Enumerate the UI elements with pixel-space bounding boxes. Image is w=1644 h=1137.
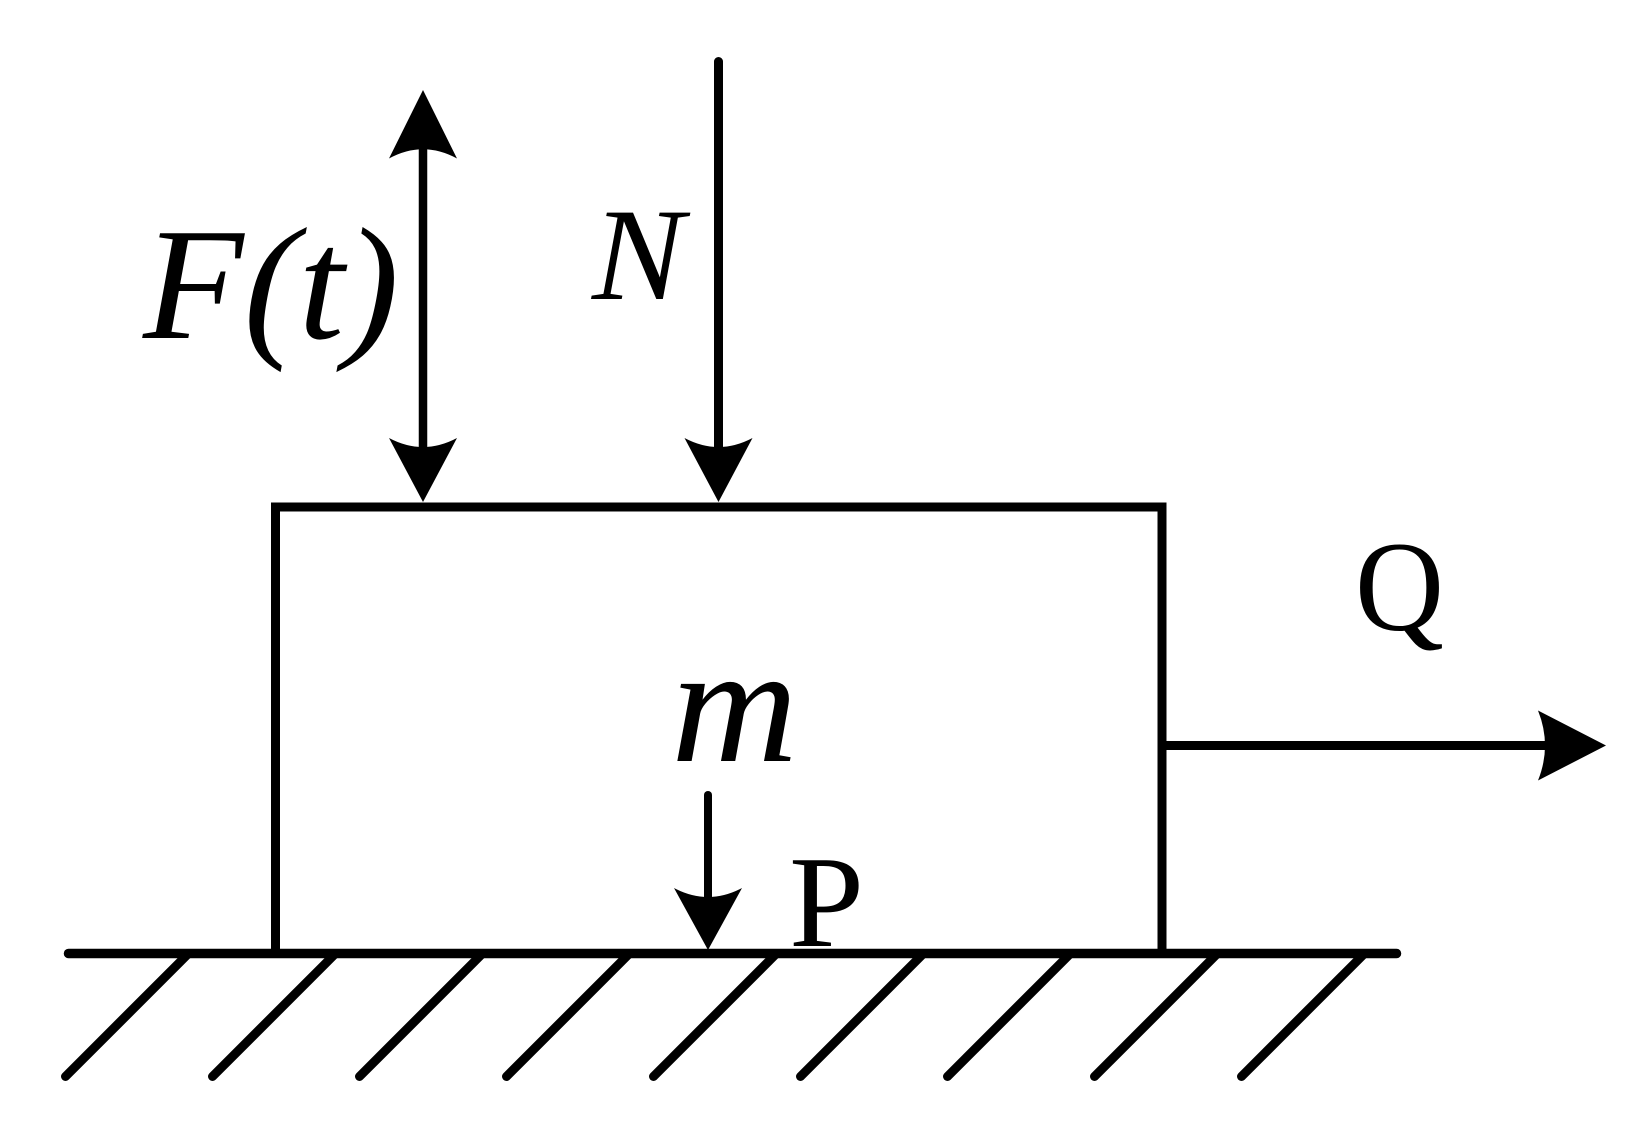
- ground hatch 8: [1095, 955, 1217, 1077]
- ground hatch 9: [1242, 955, 1364, 1077]
- ground hatch 5: [654, 955, 776, 1077]
- F(t) up arrowhead: [389, 90, 457, 159]
- friction arrow Q shaft: [1162, 741, 1558, 750]
- ground hatch 3: [360, 955, 482, 1077]
- force double arrow F(t) shaft: [419, 140, 428, 455]
- svg-text:F(t): F(t): [142, 195, 399, 373]
- weight arrow P shaft: [704, 795, 712, 900]
- force arrow N shaft: [714, 62, 723, 456]
- Q right arrowhead: [1538, 711, 1606, 781]
- svg-text:P: P: [789, 830, 864, 975]
- ground line: [69, 949, 1397, 959]
- svg-text:m: m: [671, 612, 798, 798]
- svg-text:Q: Q: [1355, 516, 1444, 658]
- ground hatch 6: [801, 955, 923, 1077]
- block m (rectangle outline): [276, 507, 1163, 953]
- ground hatch 7: [948, 955, 1070, 1077]
- svg-text:N: N: [591, 181, 691, 328]
- ground hatch 2: [213, 955, 335, 1077]
- F(t) down arrowhead: [389, 438, 457, 502]
- N down arrowhead: [685, 438, 753, 502]
- ground hatch 1: [66, 955, 188, 1077]
- ground hatch 4: [507, 955, 629, 1077]
- P down arrowhead: [674, 888, 742, 950]
